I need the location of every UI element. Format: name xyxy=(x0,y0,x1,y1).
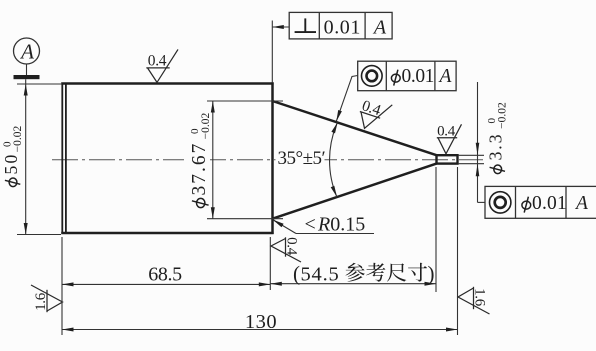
centerline (part axis) xyxy=(52,159,483,161)
svg-text:3.3: 3.3 xyxy=(486,133,506,161)
leader from φ3.3 dimension line xyxy=(478,201,486,203)
svg-text:1.6: 1.6 xyxy=(472,288,488,307)
svg-text:35°±5′: 35°±5′ xyxy=(278,148,326,169)
dimension φ50 0/-0.02 (left side) xyxy=(1,79,61,234)
angular dimension 35°±5′ with arc xyxy=(278,122,338,197)
svg-text:0.01: 0.01 xyxy=(532,193,567,214)
part outline: cylinder body φ50 xyxy=(61,82,273,234)
svg-text:0.01: 0.01 xyxy=(324,17,361,39)
surface roughness 0.4 on cylinder top xyxy=(146,49,178,82)
svg-text:−0.02: −0.02 xyxy=(497,102,509,129)
part outline: cone 35° xyxy=(273,101,437,219)
svg-text:0.01: 0.01 xyxy=(402,66,435,87)
white masks under dimension texts (centerline breaks) xyxy=(276,146,325,166)
feature control frame: concentricity φ0.01 A (cone axis) xyxy=(336,61,456,121)
svg-text:0.4: 0.4 xyxy=(437,124,456,140)
datum A symbol xyxy=(14,38,40,79)
svg-text:0.4: 0.4 xyxy=(148,53,167,70)
svg-text:A: A xyxy=(19,40,34,64)
surface roughness 1.6 left end face (rotated) xyxy=(31,285,63,312)
svg-text:1.6: 1.6 xyxy=(33,292,49,311)
surface roughness 0.4 on tip cylinder xyxy=(437,124,462,154)
svg-text:−0.02: −0.02 xyxy=(12,125,24,152)
svg-text:R0.15: R0.15 xyxy=(317,214,365,236)
part outline: tip cylinder φ3.3 xyxy=(437,155,458,163)
svg-text:<: < xyxy=(305,214,316,236)
svg-text:A: A xyxy=(574,193,588,214)
svg-text:50: 50 xyxy=(1,153,21,175)
svg-text:0.4: 0.4 xyxy=(284,237,300,256)
svg-text:(: ( xyxy=(293,262,300,286)
svg-text:54.5: 54.5 xyxy=(301,264,340,286)
dimension φ3.3 0/-0.02 (tip) xyxy=(458,82,509,202)
dimension 68.5 xyxy=(62,237,270,335)
svg-text:130: 130 xyxy=(245,311,277,333)
surface roughness 0.4 on shoulder face (rotated) xyxy=(271,237,301,262)
svg-text:−0.02: −0.02 xyxy=(200,112,212,139)
svg-text:A: A xyxy=(437,66,451,87)
feature control frame: concentricity φ0.01 A (tip axis) xyxy=(478,186,596,218)
surface roughness 0.4 on cone surface xyxy=(355,96,392,134)
svg-text:): ) xyxy=(428,262,435,286)
surface roughness 1.6 right end face (rotated) xyxy=(458,287,490,314)
svg-text:37.67: 37.67 xyxy=(189,142,210,196)
dimension 130 xyxy=(62,167,458,335)
text 参考尺寸 (reference dimension) xyxy=(345,263,427,282)
dimension φ37.67 0/-0.02 (cone large end) xyxy=(189,101,283,219)
feature control frame: perpendicularity 0.01 A xyxy=(272,12,392,82)
leader note <R0.15 xyxy=(273,214,374,236)
dimension (54.5 参考尺寸) reference xyxy=(270,167,436,292)
leader arrow to cone xyxy=(336,76,357,122)
svg-text:68.5: 68.5 xyxy=(148,264,182,286)
svg-text:A: A xyxy=(372,17,387,39)
